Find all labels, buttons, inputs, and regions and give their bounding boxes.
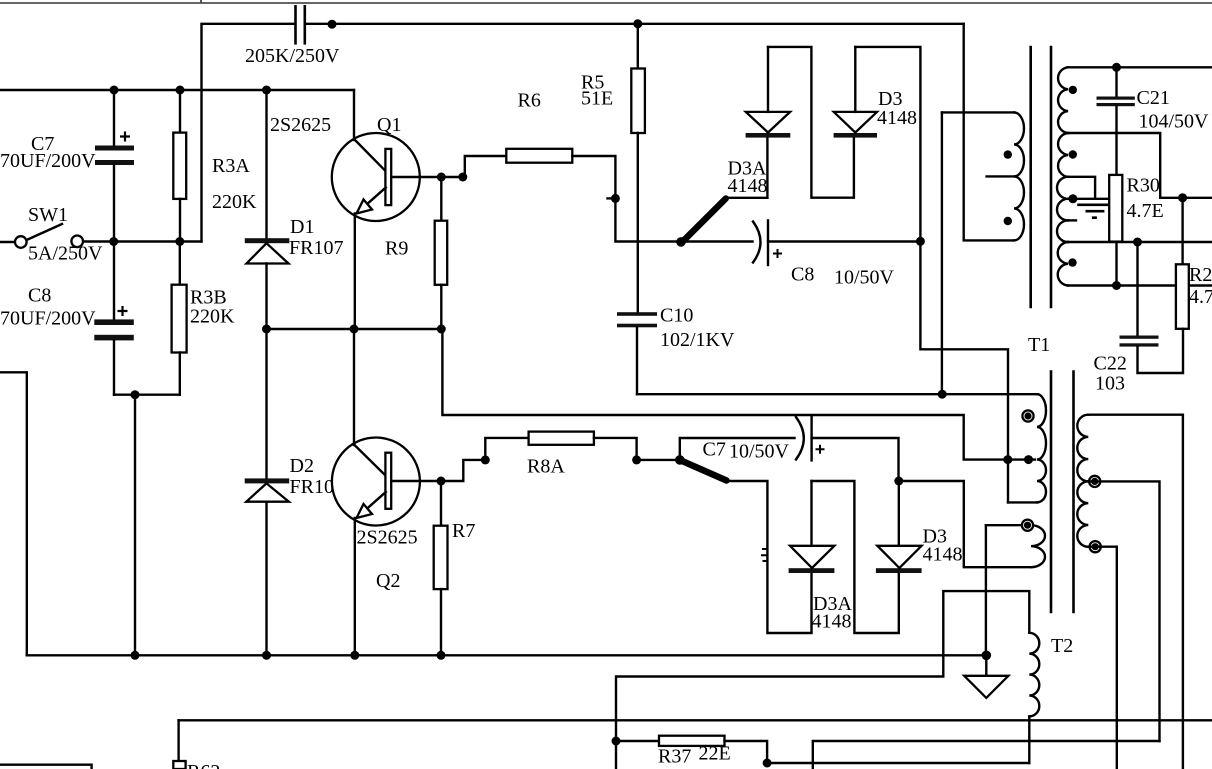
svg-text:C8: C8 (791, 264, 814, 286)
svg-text:4148: 4148 (812, 611, 852, 633)
T1-aux secondary winding section1 (1058, 67, 1068, 133)
node Q2 base / R7 top (437, 477, 446, 486)
wire C8 row left segment (681, 240, 753, 242)
svg-text:2S2625: 2S2625 (270, 114, 331, 136)
svg-text:470UF/200V: 470UF/200V (0, 308, 96, 330)
svg-text:FR107: FR107 (289, 237, 343, 259)
stub sec lead5 (1068, 219, 1076, 221)
T1-aux primary center tap (987, 175, 1014, 177)
svg-text:C21: C21 (1137, 87, 1170, 109)
top border line (0, 2, 1212, 4)
svg-text:10/50V: 10/50V (834, 267, 895, 289)
wire C10 bottom row to T1 top (637, 393, 1038, 395)
wire bottom bus full width (179, 719, 1212, 721)
capacitor 205K/250V plates (294, 5, 297, 45)
node winding at R30 wire (1068, 194, 1077, 203)
wire R6 right down to C8 row (572, 156, 681, 242)
svg-text:R29: R29 (1189, 264, 1212, 286)
node bus Q2 emitter (350, 651, 359, 660)
svg-text:R8A: R8A (527, 456, 565, 478)
svg-text:4148: 4148 (728, 175, 768, 197)
tick marks on lower vertical (761, 549, 767, 561)
diode D1 FR107 (265, 90, 267, 240)
wire sec lead2 down to R2x node (1068, 133, 1212, 198)
transistor Q2 2S2625 (332, 329, 441, 655)
node D3 bottom anode (894, 477, 903, 486)
node R8A drop (632, 455, 641, 464)
resistor R3A 220K (179, 90, 181, 133)
node C22 top branch (1133, 238, 1142, 247)
wire long row y=415 from R9 column (442, 329, 1035, 460)
node Q1 emitter column (350, 325, 359, 334)
wire sec bottom lead row (1068, 284, 1212, 286)
resistor R7 (440, 481, 442, 526)
wire T2 bottom lead (1028, 716, 1030, 763)
T1 primary lower winding top lead (986, 524, 1031, 526)
svg-text:4.7E: 4.7E (1127, 200, 1164, 222)
transformer T2 winding (1029, 633, 1039, 717)
wire node up to C7 row (680, 438, 795, 460)
svg-text:R9: R9 (385, 238, 408, 260)
resistor R30 4.7E (1109, 175, 1122, 242)
ground bars (1077, 205, 1109, 218)
resistor R9 (440, 177, 442, 221)
svg-text:C22: C22 (1094, 353, 1127, 375)
T1 primary upper winding (1037, 394, 1046, 502)
wire sec lead6 / R30 bottom row (1068, 241, 1212, 243)
node R37 left (612, 737, 621, 746)
thick diagonal lower (spark gap) (681, 461, 727, 481)
wire top-right corner down to T1-aux primary bottom (964, 24, 1014, 241)
resistor R62 (clipped at bottom) (177, 720, 179, 761)
T1-aux core left (1029, 47, 1032, 307)
svg-text:C7: C7 (703, 439, 726, 461)
svg-text:470UF/200V: 470UF/200V (0, 150, 96, 172)
wire D3 top anode over to C8 node (855, 47, 920, 241)
capacitor C21 104/50V (1115, 67, 1117, 96)
svg-text:220K: 220K (212, 191, 257, 213)
wire D3 anode node to right and down to winding bottom (899, 481, 1031, 567)
wire R2x top lead (1181, 198, 1183, 264)
wire n-link top pair (768, 47, 854, 198)
T1-aux secondary winding section6 (1058, 242, 1068, 286)
svg-text:T2: T2 (1051, 635, 1073, 657)
capacitor C7 470UF/200V (113, 90, 115, 146)
T1 primary upper bottom lead (1008, 501, 1037, 503)
svg-text:4148: 4148 (923, 544, 963, 566)
node bus C8 branch (131, 651, 140, 660)
resistor R6 (506, 149, 572, 163)
node C8 right / D3 anode (916, 237, 925, 246)
node D1/D2 (262, 325, 271, 334)
node stub on R6 drop (611, 194, 620, 203)
wire sec lead4 to R30 (1068, 198, 1116, 200)
svg-text:C10: C10 (660, 305, 693, 327)
resistor R8A (529, 432, 594, 445)
svg-text:102/1KV: 102/1KV (660, 329, 735, 351)
wire n-link bottom pair (812, 481, 899, 633)
node on top wire (328, 20, 337, 29)
node R5 top (633, 19, 642, 28)
svg-text:22E: 22E (699, 743, 731, 765)
node R3B top (175, 237, 184, 246)
node base to R6 corner (458, 173, 467, 182)
stub tick left of node (608, 197, 613, 199)
T1 secondary winding section2 (1077, 481, 1088, 546)
svg-text:Q1: Q1 (377, 114, 401, 136)
wire sec lead3 to ground (1068, 177, 1095, 199)
T1-aux secondary winding section3 (1057, 177, 1068, 199)
capacitor C7 10/50V electrolytic (796, 417, 804, 459)
node Q1 base / R9 top (437, 173, 446, 182)
node R9 bottom (437, 325, 446, 334)
bottom-left box corner (0, 765, 92, 769)
wire left edge stub to bus (0, 372, 27, 655)
T1 core left (1050, 372, 1053, 613)
wire T1 lower primary left column to bus (985, 525, 987, 655)
capacitor C22 103 (1120, 336, 1159, 339)
node bus D2 (262, 651, 271, 660)
transistor Q1 2S2625 (332, 90, 465, 329)
node diagonal top lower (675, 455, 685, 465)
svg-text:51E: 51E (581, 88, 613, 110)
node T1 tap at winding (1024, 455, 1033, 464)
thick diagonal upper (spark gap) (682, 199, 726, 243)
svg-text:D2: D2 (290, 455, 314, 477)
T1 secondary top lead (1088, 415, 1183, 769)
wire C8/R3B bottom (114, 394, 180, 396)
wire top row left of C9 cap (202, 24, 295, 242)
T1-aux secondary winding section4 (1057, 199, 1068, 221)
svg-text:10/50V: 10/50V (729, 441, 790, 463)
svg-text:R6: R6 (518, 90, 541, 112)
ground bus wire (27, 654, 987, 656)
wire T1 secondary tap1 lead (1088, 481, 1159, 741)
transformer T1-aux primary winding (1014, 112, 1024, 240)
switch SW1 5A/250V (0, 241, 15, 243)
resistor R3B 220K (179, 242, 181, 285)
svg-text:R37: R37 (658, 746, 691, 768)
svg-text:205K/250V: 205K/250V (245, 45, 340, 67)
svg-text:R30: R30 (1127, 175, 1160, 197)
svg-text:T1: T1 (1028, 334, 1050, 356)
phase ring T1 secondary tap1 (1089, 476, 1100, 487)
wire C8 bottom to ground bus (134, 395, 136, 656)
diode D3 bottom 4148 (876, 568, 922, 573)
svg-text:5A/250V: 5A/250V (28, 243, 103, 265)
wire from 205K cap to top right (306, 23, 964, 25)
diode D3A top 4148 (766, 137, 768, 198)
phase ring T1 secondary bottom (1090, 541, 1101, 552)
wire R30 bottom to winding bottom row (1115, 242, 1117, 286)
node C8 bottom (131, 390, 140, 399)
wire R8A right down to node row (594, 438, 680, 460)
phase dot sec1 (1069, 86, 1077, 94)
T1 primary lower winding (1031, 525, 1045, 567)
wire Q1 base to R6 (465, 156, 507, 177)
phase dot sec2 (1069, 150, 1077, 158)
top border tick (200, 0, 202, 3)
T1 secondary winding section1 (1077, 415, 1088, 482)
phase dot T1-aux primary lower (1004, 217, 1012, 225)
node D1 top (262, 86, 271, 95)
wire C8 node down and over to T1 winding bottom branch (920, 241, 1008, 502)
wire base row y=329 (267, 328, 442, 330)
node T1 tap branch (1003, 455, 1012, 464)
chassis arrow under bus (985, 655, 987, 676)
T1-aux primary top lead (942, 111, 1014, 113)
wire Q2 base staircase to R8A (441, 438, 529, 481)
phase dot sec6 (1068, 258, 1076, 266)
node C21 top (1112, 63, 1121, 72)
resistor R5 51E (637, 24, 639, 69)
wire vertical from T1-aux primary top (941, 112, 943, 394)
svg-text:4148: 4148 (877, 107, 917, 129)
node C8 top (109, 237, 118, 246)
svg-text:220K: 220K (190, 306, 235, 328)
wire diagonal top to D3A-top cathode (726, 197, 767, 199)
node R2x top (1178, 193, 1187, 202)
diode D2 FR107 (265, 329, 267, 480)
wire R37 to T2 bottom (767, 762, 1029, 764)
wire C22 branch down (1136, 242, 1138, 336)
node T1 top feed (938, 390, 947, 399)
svg-text:2S2625: 2S2625 (357, 527, 418, 549)
svg-text:R62: R62 (187, 761, 220, 769)
T1-aux secondary winding section2 (1058, 133, 1068, 177)
wire mains top y=90 (0, 89, 354, 91)
resistor R29 4.7E (right-clipped) (1176, 264, 1189, 329)
T1 core right (1072, 372, 1075, 613)
phase ring T1 primary lower (1022, 520, 1033, 531)
node bus T2 arrow (982, 651, 992, 661)
svg-text:C8: C8 (28, 285, 51, 307)
capacitor C8 10/50V electrolytic (753, 222, 761, 263)
wire long feedback row (813, 741, 1160, 769)
capacitor C8 470UF/200V (113, 242, 115, 320)
svg-text:R7: R7 (452, 520, 475, 542)
T1-aux core right (1050, 47, 1053, 307)
svg-text:4.7E: 4.7E (1189, 286, 1212, 308)
wire sec top lead to right edge (1068, 66, 1212, 68)
svg-text:SW1: SW1 (28, 204, 68, 226)
wire T1 secondary bottom lead (1088, 547, 1117, 769)
phase dot T1-aux primary upper (1004, 150, 1012, 158)
node C7 top (110, 86, 119, 95)
node bus R7 (437, 651, 446, 660)
wire T2 top loop (616, 591, 1029, 769)
capacitor C10 102/1KV (617, 312, 657, 316)
node diagonal bottom upper (676, 237, 686, 247)
svg-text:R3A: R3A (212, 155, 250, 177)
wire diagonal end right and down (lower U left) (727, 481, 811, 633)
resistor R37 22E (616, 740, 659, 742)
node staircase corner (481, 455, 490, 464)
svg-text:D1: D1 (290, 216, 314, 238)
svg-text:103: 103 (1095, 373, 1125, 395)
diode D3 top 4148 (834, 133, 877, 138)
svg-text:Q2: Q2 (376, 570, 400, 592)
T1-aux secondary winding section5 (1057, 220, 1068, 242)
node R3A top (176, 86, 185, 95)
phase ring T1 primary upper (1022, 410, 1033, 421)
node R37 right corner (763, 759, 772, 768)
svg-text:104/50V: 104/50V (1139, 111, 1210, 133)
diode D3A bottom 4148 (789, 568, 835, 573)
node R30 column bottom (1112, 281, 1121, 290)
